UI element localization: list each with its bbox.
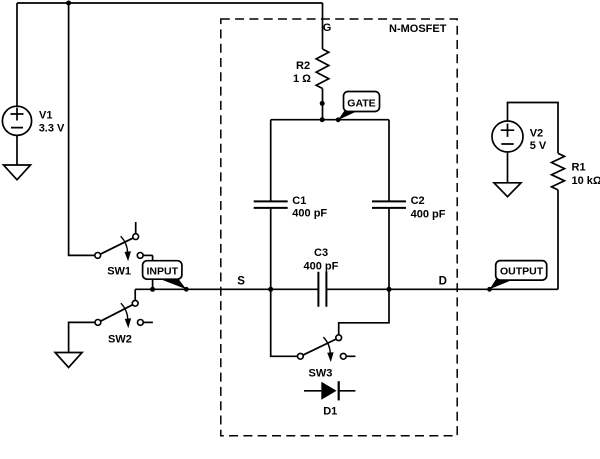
svg-text:R2: R2 <box>296 60 310 72</box>
svg-text:R1: R1 <box>572 161 586 173</box>
flag INPUT <box>143 261 189 292</box>
node dot C2 at D rail <box>387 287 392 292</box>
voltage source V2 <box>492 121 523 152</box>
wire SW1 NO contact down to node S <box>152 255 154 289</box>
diode D1 <box>304 381 355 400</box>
svg-text:3.3 V: 3.3 V <box>39 122 65 134</box>
svg-text:400 pF: 400 pF <box>292 208 327 220</box>
svg-text:OUTPUT: OUTPUT <box>500 265 544 277</box>
wire V2 bottom lead <box>507 152 509 183</box>
switch SW2 <box>95 300 153 328</box>
wire C1 top lead <box>270 120 272 202</box>
wire main D rail <box>326 288 558 290</box>
wire gate horizontal <box>271 119 389 121</box>
node dot gate on wire <box>320 117 325 122</box>
flag OUTPUT <box>487 261 547 292</box>
svg-text:S: S <box>237 275 245 287</box>
svg-text:V2: V2 <box>530 127 543 139</box>
capacitor C3 in series <box>318 272 326 307</box>
svg-text:GATE: GATE <box>347 98 375 110</box>
flag GATE <box>336 92 380 123</box>
svg-text:D1: D1 <box>323 406 337 418</box>
ground below V2 <box>494 183 521 197</box>
svg-text:10 kΩ: 10 kΩ <box>572 175 600 187</box>
svg-text:C1: C1 <box>292 195 306 207</box>
ground below V1 <box>4 165 31 180</box>
node dot C1 at S rail <box>268 287 273 292</box>
svg-text:SW1: SW1 <box>107 266 131 278</box>
wire SW1 unused throw stub <box>135 222 137 234</box>
wire V1 top lead <box>16 3 18 106</box>
wire SW3 common to S rail <box>271 289 298 356</box>
capacitor C2 <box>372 201 406 208</box>
node junction dot top rail <box>66 1 71 6</box>
switch SW3 <box>298 335 356 362</box>
wire V1 bottom lead <box>16 135 18 165</box>
node junction dot INPUT <box>150 287 155 292</box>
wire C2 top lead <box>388 120 390 202</box>
svg-text:D: D <box>439 275 447 287</box>
svg-text:N-MOSFET: N-MOSFET <box>389 23 447 35</box>
svg-text:C2: C2 <box>411 195 425 207</box>
resistor R2 <box>316 49 329 89</box>
svg-text:400 pF: 400 pF <box>304 260 339 272</box>
wire R2 bottom <box>322 89 324 120</box>
wire top rail from V1 to R2 <box>17 2 323 4</box>
dashed N-MOSFET model box <box>221 19 457 436</box>
wire C2 bottom lead <box>388 208 390 289</box>
svg-text:G: G <box>323 22 332 34</box>
wire from top rail down to SW1 <box>69 3 95 255</box>
svg-text:SW3: SW3 <box>309 368 333 380</box>
ground below SW2 <box>55 353 82 368</box>
svg-text:C3: C3 <box>314 247 328 259</box>
svg-text:1 Ω: 1 Ω <box>293 73 311 85</box>
capacitor C1 <box>254 201 288 208</box>
svg-text:V1: V1 <box>39 110 52 122</box>
node dot gate upper <box>320 101 325 106</box>
wire R1 bottom to D rail <box>557 190 559 289</box>
wire SW2 common to ground <box>69 322 95 352</box>
wire V2 top to R1 top <box>508 103 559 154</box>
wire from D rail down to SW3 <box>339 289 389 335</box>
svg-text:400 pF: 400 pF <box>411 209 446 221</box>
wire gate lead into box <box>322 3 324 49</box>
voltage source V1 <box>2 106 31 135</box>
wire C1 bottom lead <box>270 208 272 289</box>
switch SW1 <box>95 234 153 261</box>
svg-text:5 V: 5 V <box>530 140 547 152</box>
resistor R1 <box>552 153 565 190</box>
svg-text:INPUT: INPUT <box>147 266 179 278</box>
wire from S rail down to SW2 <box>134 289 136 300</box>
svg-text:SW2: SW2 <box>108 334 132 346</box>
wire main S rail <box>135 288 318 290</box>
